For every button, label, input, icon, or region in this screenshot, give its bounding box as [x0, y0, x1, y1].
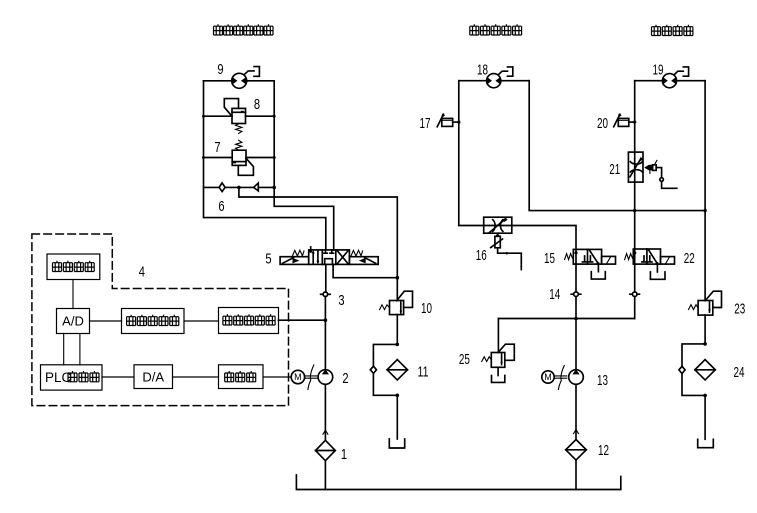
node junction right end of line 6: [272, 186, 276, 190]
svg-text:14: 14: [549, 286, 560, 303]
wire right frame of main-drive block: [273, 81, 275, 188]
title cross scribing unit: [470, 24, 522, 35]
junction frame-right valve 8 line: [273, 115, 276, 118]
svg-text:M: M: [294, 372, 302, 382]
box A/D: [57, 309, 90, 334]
svg-text:9: 9: [217, 61, 223, 78]
motor 9: [232, 67, 260, 89]
label differential circuit: [53, 261, 95, 272]
wire differential to A/D: [72, 280, 74, 309]
wire D/A to converter: [173, 376, 219, 378]
cross-line block frame left vertical and feed to valve 16: [459, 81, 484, 226]
wire valve 16 to valve 15: [512, 226, 576, 250]
relief valve 25: [482, 319, 515, 383]
svg-text:16: 16: [476, 247, 487, 264]
flow control valve 21: [628, 152, 676, 188]
slicing block top line: [635, 80, 705, 82]
dashed enclosure 4: [32, 234, 289, 406]
filter 1: [316, 440, 336, 460]
wire A/D to op-amp: [90, 320, 122, 322]
svg-text:D/A: D/A: [142, 370, 164, 385]
box differential circuit: [47, 254, 100, 280]
wire left frame of main-drive block down to valve 5 top-left port: [204, 81, 326, 250]
pump 13: [569, 369, 584, 384]
svg-text:A/D: A/D: [62, 314, 84, 329]
wire valve 10 to filter 11: [396, 315, 398, 345]
electric motor M of pump 2: [291, 365, 318, 390]
node pressure tap below valve 22: [630, 292, 640, 297]
pump 2: [318, 369, 333, 384]
accumulator tap 20: [614, 114, 637, 127]
svg-text:11: 11: [418, 364, 429, 381]
svg-text:7: 7: [214, 139, 220, 156]
wire valve 23 to filter 24: [704, 315, 706, 344]
box flow sensor: [219, 308, 279, 334]
svg-text:17: 17: [420, 115, 431, 132]
wire pump 13 to filter 12: [575, 384, 577, 439]
check valve left on line 6: [219, 183, 225, 192]
label flow sensor: [223, 314, 275, 325]
slicing block left vertical: [634, 81, 636, 319]
wire PLC to D/A: [102, 376, 134, 378]
svg-text:19: 19: [653, 62, 664, 79]
node junction manifold right corner: [703, 209, 706, 212]
box op-amp: [122, 309, 185, 334]
wire check valve line 6: [204, 186, 275, 188]
wire valve 5 bottom-left port to pump 2: [324, 264, 326, 369]
filter 11 with bypass check: [370, 343, 407, 448]
svg-text:3: 3: [338, 292, 344, 309]
label PLC controller: [45, 370, 99, 385]
relief valve 23: [689, 291, 722, 315]
svg-text:18: 18: [477, 62, 488, 79]
box frequency converter: [219, 365, 264, 389]
solenoid valve 15: [565, 249, 616, 279]
svg-text:24: 24: [734, 364, 745, 381]
numeric labels: [139, 61, 746, 463]
accumulator tap 17: [437, 114, 460, 127]
svg-text:21: 21: [609, 161, 620, 178]
box D/A: [134, 365, 173, 389]
motor 19: [662, 67, 688, 88]
flow arrow above filter 1: [323, 430, 328, 434]
valve 10 pilot relief: [380, 291, 413, 314]
cross-line block top line: [459, 80, 529, 82]
flow control valve 16: [484, 217, 522, 269]
filter 24 with bypass check: [679, 342, 715, 448]
slicing block right vertical: [704, 81, 706, 301]
junction frame-right valve 7 line: [273, 156, 276, 159]
label op-amp: [127, 315, 179, 326]
node 14 pressure tap: [571, 292, 581, 297]
wire valve 8 line: [204, 115, 275, 117]
valve 7 relief: [232, 140, 253, 175]
svg-text:M: M: [544, 372, 552, 382]
wire A/D to PLC two lines: [64, 334, 80, 365]
wire converter to motor M: [263, 376, 291, 378]
svg-text:25: 25: [459, 351, 470, 368]
flow arrow above filter 12: [574, 430, 579, 434]
svg-text:22: 22: [684, 250, 695, 267]
svg-text:20: 20: [597, 115, 608, 132]
node junction on line 6: [237, 186, 241, 190]
node junction manifold crossing: [633, 209, 636, 212]
filter 12: [566, 440, 587, 461]
svg-text:12: 12: [598, 442, 609, 459]
solenoid valve 22: [625, 249, 675, 279]
motor 18: [487, 67, 513, 88]
box PLC controller: [41, 365, 103, 390]
svg-text:13: 13: [597, 372, 608, 389]
svg-text:15: 15: [544, 250, 555, 267]
wire pump 2 to filter 1: [324, 384, 326, 440]
node junction pump 13 manifold: [574, 317, 578, 321]
wire filter 1 to tank line: [324, 461, 326, 490]
wire filter 12 to tank line: [575, 460, 577, 489]
svg-text:1: 1: [341, 446, 347, 463]
label frequency converter: [225, 371, 256, 382]
manifold line pump13 to slicing block: [498, 318, 634, 320]
electric motor M of pump 13: [542, 366, 567, 390]
svg-text:8: 8: [254, 96, 260, 113]
svg-text:23: 23: [734, 301, 745, 318]
wire from node on line 6 down and right to relief line: [239, 187, 397, 300]
wire flow sensor to main pressure line: [279, 319, 326, 321]
wire from check line right node down to valve 5 top-right port: [274, 187, 334, 250]
svg-text:4: 4: [139, 264, 145, 281]
svg-text:6: 6: [218, 198, 224, 215]
title slicing unit: [652, 25, 693, 36]
cross-line block right vertical to manifold: [529, 81, 705, 211]
tank return line: [296, 475, 620, 490]
svg-text:10: 10: [421, 300, 432, 317]
wire valve 15 through node 14 to pump 13: [575, 264, 577, 370]
wire motor 9 line: [204, 80, 275, 82]
svg-text:5: 5: [265, 251, 271, 268]
wire op-amp to flow sensor: [184, 320, 219, 322]
node junction on relief line: [396, 276, 400, 280]
valve 8 relief: [224, 99, 245, 134]
junction frame-left valve 7 line: [202, 156, 205, 159]
node junction sensor line to pressure line: [324, 318, 328, 322]
valve 5 proportional directional valve: [280, 247, 378, 265]
check valve right on line 6: [254, 183, 259, 191]
node 3 pressure tap: [321, 292, 331, 297]
wire valve 7 line: [204, 157, 275, 159]
svg-text:2: 2: [342, 370, 348, 387]
title main belt drive unit: [214, 24, 274, 35]
junction frame-left valve 8 line: [202, 115, 205, 118]
wire valve 5 bottom-right port to relief line: [333, 264, 397, 277]
